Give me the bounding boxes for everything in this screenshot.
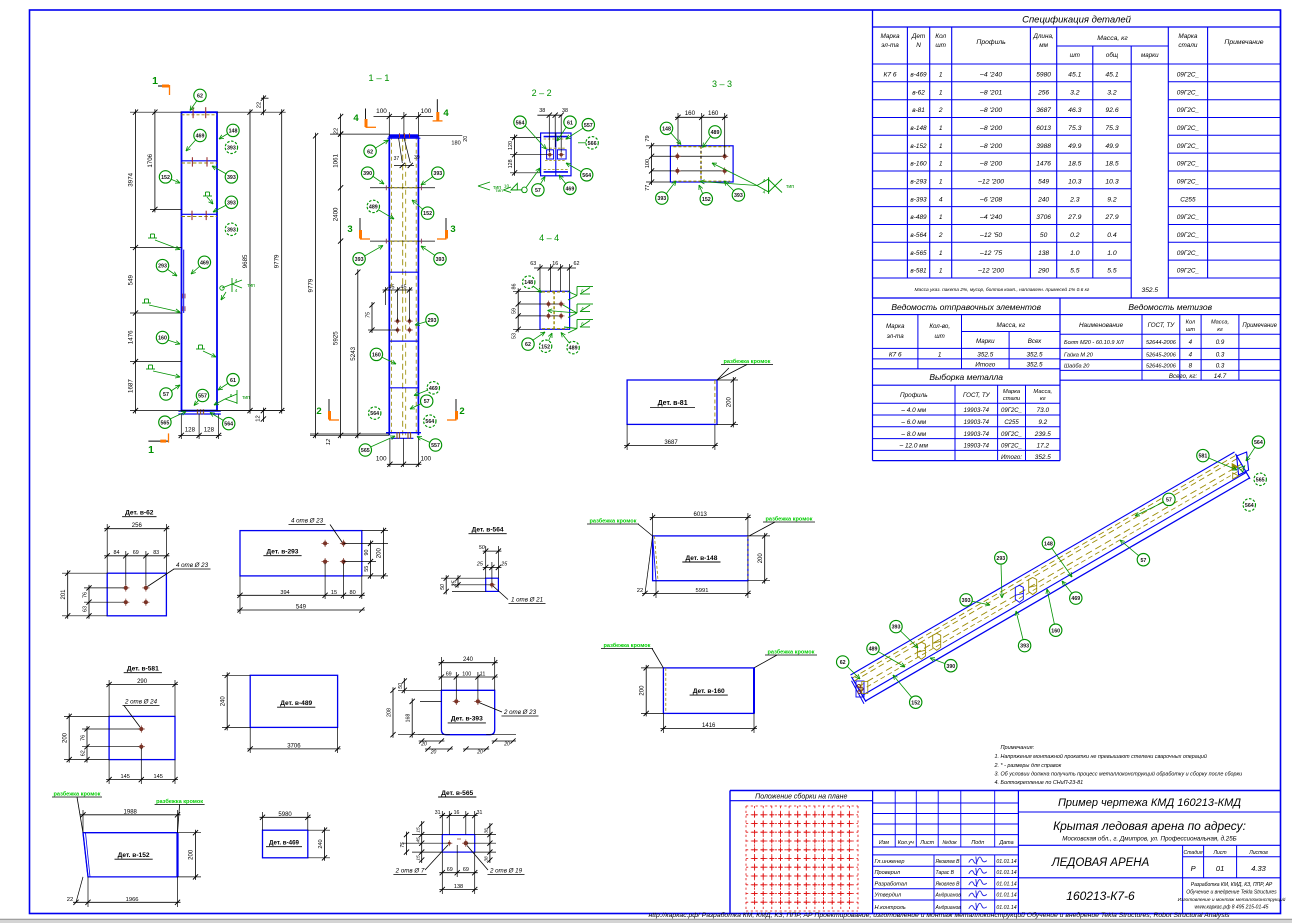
svg-text:Шайба 20: Шайба 20: [1064, 363, 1090, 370]
svg-text:16: 16: [454, 810, 460, 816]
svg-text:1476: 1476: [1036, 161, 1051, 168]
svg-text:22: 22: [334, 128, 340, 134]
svg-text:38: 38: [484, 828, 490, 834]
svg-text:5925: 5925: [333, 331, 340, 345]
svg-text:100: 100: [421, 108, 432, 115]
svg-text:393: 393: [227, 175, 236, 181]
svg-text:57: 57: [424, 399, 430, 405]
svg-text:Марка: Марка: [1178, 33, 1198, 40]
svg-text:52644-2006: 52644-2006: [1146, 340, 1177, 346]
svg-text:49.9: 49.9: [1068, 143, 1081, 150]
svg-text:3988: 3988: [1036, 143, 1051, 150]
svg-text:01.01.14: 01.01.14: [996, 859, 1016, 865]
svg-text:Дет. в-81: Дет. в-81: [658, 400, 688, 407]
svg-text:469: 469: [429, 386, 438, 392]
svg-text:128: 128: [508, 159, 514, 168]
svg-text:352.5: 352.5: [1027, 362, 1043, 369]
svg-text:50: 50: [1040, 232, 1048, 239]
svg-text:–8 '200: –8 '200: [979, 125, 1002, 132]
svg-text:50: 50: [398, 683, 404, 689]
svg-text:25: 25: [452, 580, 458, 588]
svg-text:2: 2: [459, 406, 464, 417]
svg-text:15: 15: [415, 855, 421, 861]
svg-text:Дет: Дет: [911, 33, 926, 40]
svg-text:01.01.14: 01.01.14: [996, 881, 1016, 887]
svg-text:Примечания:: Примечания:: [1001, 745, 1035, 751]
svg-text:160: 160: [708, 110, 719, 117]
svg-text:31: 31: [477, 810, 483, 816]
svg-text:–12 '200: –12 '200: [977, 179, 1004, 186]
svg-text:– 8.0 мм: – 8.0 мм: [900, 431, 926, 438]
svg-text:эл-та: эл-та: [881, 42, 899, 49]
svg-text:1.0: 1.0: [1070, 250, 1080, 257]
svg-text:2 отв Ø 23: 2 отв Ø 23: [503, 709, 537, 716]
svg-text:200: 200: [62, 732, 68, 743]
svg-text:8: 8: [1189, 363, 1193, 370]
svg-text:5.5: 5.5: [1107, 268, 1117, 275]
svg-text:393: 393: [962, 598, 971, 604]
svg-text:– 6.0 мм: – 6.0 мм: [900, 419, 926, 426]
svg-text:Разработка КМ, КМД, КЗ, ППР, А: Разработка КМ, КМД, КЗ, ППР, АР: [1191, 882, 1273, 888]
svg-text:Масса, кг: Масса, кг: [996, 322, 1025, 329]
svg-text:нttр://каркас.рф/ Разработка: нttр://каркас.рф/ Разработка КМ, КМД, КЗ…: [648, 911, 1230, 919]
svg-text:25: 25: [500, 562, 508, 568]
svg-text:Болт М20 - 60.10.9 ХЛ: Болт М20 - 60.10.9 ХЛ: [1064, 340, 1124, 346]
svg-text:564: 564: [370, 411, 379, 417]
svg-text:393: 393: [433, 171, 442, 177]
svg-text:469: 469: [1071, 596, 1080, 602]
svg-text:Дет. в-469: Дет. в-469: [269, 840, 300, 847]
svg-text:27.9: 27.9: [1067, 214, 1081, 221]
svg-text:Дет. в-581: Дет. в-581: [127, 666, 159, 673]
svg-text:160213-К7-6: 160213-К7-6: [1066, 889, 1135, 903]
svg-text:5980: 5980: [1036, 72, 1051, 79]
svg-text:Масса,: Масса,: [1033, 389, 1052, 395]
svg-text:200: 200: [639, 685, 645, 696]
svg-text:489: 489: [869, 647, 878, 653]
svg-text:Гл.инженер: Гл.инженер: [875, 859, 905, 865]
svg-text:69: 69: [463, 867, 469, 873]
svg-text:393: 393: [436, 257, 445, 263]
svg-text:Профиль: Профиль: [976, 39, 1006, 46]
svg-text:1. Напряжения монтажной прокат: 1. Напряжения монтажной прокатки не прев…: [995, 753, 1207, 760]
svg-text:45.1: 45.1: [1068, 72, 1081, 79]
svg-text:15: 15: [331, 590, 337, 596]
svg-text:Всех: Всех: [1028, 338, 1042, 345]
svg-text:489: 489: [569, 346, 578, 352]
svg-text:390: 390: [363, 171, 372, 177]
svg-text:Всего, кг:: Всего, кг:: [1169, 373, 1197, 380]
svg-text:469: 469: [196, 134, 205, 140]
svg-text:в-489: в-489: [910, 214, 927, 221]
svg-text:138: 138: [454, 884, 463, 890]
svg-text:Длина,: Длина,: [1032, 33, 1054, 40]
svg-text:в-581: в-581: [910, 268, 927, 275]
svg-text:393: 393: [1020, 644, 1029, 650]
svg-text:83: 83: [153, 550, 159, 556]
svg-text:394: 394: [280, 590, 289, 596]
svg-text:239.5: 239.5: [1034, 431, 1051, 438]
svg-text:Пример чертежа КМД 160213-КМД: Пример чертежа КМД 160213-КМД: [1058, 797, 1241, 809]
svg-text:Итого:: Итого:: [1001, 454, 1022, 461]
svg-text:4 отв Ø 23: 4 отв Ø 23: [176, 562, 209, 569]
svg-text:разбежка кромок: разбежка кромок: [765, 516, 812, 523]
svg-text:–12 '75: –12 '75: [979, 250, 1002, 257]
svg-text:Кол: Кол: [1186, 320, 1196, 326]
svg-text:20: 20: [476, 750, 483, 756]
svg-text:Крытая ледовая арена по адресу: Крытая ледовая арена по адресу:: [1053, 819, 1246, 833]
svg-text:393: 393: [734, 193, 743, 199]
svg-text:352.5: 352.5: [1035, 454, 1051, 461]
svg-text:76: 76: [81, 735, 87, 741]
svg-text:в-148: в-148: [910, 125, 927, 132]
svg-text:0.3: 0.3: [1216, 352, 1225, 359]
svg-text:4: 4: [353, 113, 359, 124]
svg-text:Дет. в-293: Дет. в-293: [267, 549, 299, 556]
svg-text:Тарас В: Тарас В: [936, 870, 955, 876]
svg-text:шт: шт: [935, 333, 945, 340]
svg-text:17.2: 17.2: [1037, 443, 1050, 450]
svg-text:Положение сборки на плане: Положение сборки на плане: [755, 793, 847, 801]
svg-text:в-81: в-81: [912, 107, 925, 114]
svg-text:Изготовление и монтаж металлок: Изготовление и монтаж металлоконструкций: [1178, 896, 1286, 903]
svg-text:Проверил: Проверил: [875, 870, 901, 876]
svg-text:352.5: 352.5: [1142, 287, 1159, 294]
svg-text:8: 8: [230, 393, 233, 398]
svg-text:200: 200: [758, 553, 764, 564]
svg-text:Дет. в-160: Дет. в-160: [693, 688, 725, 695]
svg-text:200: 200: [189, 849, 195, 860]
svg-text:18.5: 18.5: [1105, 161, 1118, 168]
svg-text:3.2: 3.2: [1107, 89, 1117, 96]
svg-text:3.2: 3.2: [1070, 89, 1080, 96]
svg-text:53: 53: [512, 333, 518, 339]
svg-text:Обучение и внедрение Tekla Str: Обучение и внедрение Tekla Structures: [1186, 890, 1277, 896]
svg-text:1061: 1061: [333, 153, 340, 167]
svg-text:9.2: 9.2: [1038, 419, 1047, 426]
svg-text:45: 45: [401, 285, 407, 291]
svg-text:Примечание: Примечание: [1242, 323, 1277, 329]
svg-text:45: 45: [415, 837, 421, 843]
svg-text:09Г2С_: 09Г2С_: [1177, 89, 1200, 96]
svg-text:240: 240: [463, 657, 474, 663]
svg-text:152: 152: [423, 211, 432, 217]
svg-text:180: 180: [451, 141, 460, 147]
svg-text:09Г2С_: 09Г2С_: [1177, 268, 1200, 275]
svg-text:100: 100: [462, 672, 471, 678]
svg-text:в-565: в-565: [910, 250, 927, 257]
svg-text:1706: 1706: [147, 153, 154, 167]
svg-text:57: 57: [535, 188, 541, 194]
svg-text:2.3: 2.3: [1069, 196, 1080, 203]
svg-text:Марки: Марки: [976, 338, 995, 345]
svg-text:38: 38: [484, 856, 490, 862]
svg-text:Марка: Марка: [880, 33, 900, 40]
svg-text:Стадия: Стадия: [1184, 850, 1203, 856]
svg-text:15: 15: [415, 827, 421, 833]
svg-text:469: 469: [565, 186, 574, 192]
svg-text:120: 120: [508, 141, 514, 150]
svg-text:09Г2С_: 09Г2С_: [1001, 444, 1022, 450]
svg-text:09Г2С_: 09Г2С_: [1177, 107, 1200, 114]
svg-text:4: 4: [235, 288, 238, 293]
svg-text:4: 4: [1189, 352, 1193, 359]
svg-text:208: 208: [386, 708, 392, 717]
svg-text:2: 2: [938, 107, 943, 114]
svg-text:1: 1: [939, 179, 943, 186]
svg-text:27.9: 27.9: [1104, 214, 1118, 221]
svg-text:09Г2С_: 09Г2С_: [1177, 125, 1200, 132]
svg-text:61: 61: [567, 120, 573, 126]
svg-text:Выборка металла: Выборка металла: [929, 372, 1003, 382]
svg-text:кг: кг: [1040, 396, 1046, 402]
svg-text:52645-2006: 52645-2006: [1146, 353, 1177, 359]
svg-text:01.01.14: 01.01.14: [996, 905, 1016, 911]
svg-text:390: 390: [946, 664, 955, 670]
svg-text:549: 549: [296, 605, 307, 611]
svg-text:N: N: [916, 42, 921, 49]
svg-text:160: 160: [372, 353, 381, 359]
svg-text:240: 240: [1037, 196, 1049, 203]
svg-text:6: 6: [581, 322, 584, 328]
svg-text:кг: кг: [1217, 327, 1223, 333]
svg-text:22: 22: [637, 588, 643, 594]
svg-text:1: 1: [152, 75, 158, 87]
svg-text:19903-74: 19903-74: [964, 408, 990, 414]
svg-text:581: 581: [1198, 454, 1207, 460]
svg-text:128: 128: [185, 426, 196, 433]
svg-text:5243: 5243: [350, 346, 357, 360]
svg-text:–8 '200: –8 '200: [979, 161, 1002, 168]
svg-text:22: 22: [256, 102, 262, 108]
svg-text:10: 10: [504, 184, 510, 190]
svg-text:– 4.0 мм: – 4.0 мм: [900, 407, 926, 414]
svg-text:86: 86: [512, 284, 518, 290]
svg-text:4.33: 4.33: [1251, 864, 1266, 873]
svg-text:16: 16: [552, 261, 558, 267]
svg-text:С255: С255: [1180, 196, 1196, 203]
svg-text:557: 557: [584, 123, 593, 129]
svg-text:Марка: Марка: [1003, 389, 1021, 395]
svg-text:1: 1: [148, 444, 154, 456]
svg-text:37: 37: [394, 156, 400, 162]
svg-text:148: 148: [1044, 541, 1053, 547]
svg-text:Профиль: Профиль: [900, 392, 928, 399]
svg-text:148: 148: [229, 129, 238, 135]
svg-text:14.7: 14.7: [1214, 373, 1227, 380]
svg-text:152: 152: [161, 175, 170, 181]
svg-text:разбежка кромок: разбежка кромок: [589, 518, 636, 525]
svg-text:9.2: 9.2: [1107, 196, 1117, 203]
svg-text:2. * - размеры для справок: 2. * - размеры для справок: [994, 763, 1062, 769]
svg-text:09Г2С_: 09Г2С_: [1177, 179, 1200, 186]
svg-text:10.3: 10.3: [1068, 179, 1081, 186]
svg-text:9779: 9779: [274, 254, 281, 268]
svg-text:565: 565: [1256, 477, 1265, 483]
svg-text:46.3: 46.3: [1068, 107, 1081, 114]
svg-text:09Г2С_: 09Г2С_: [1177, 143, 1200, 150]
svg-text:393: 393: [657, 196, 666, 202]
svg-text:4: 4: [443, 108, 449, 119]
svg-text:Дет. в-62: Дет. в-62: [125, 510, 154, 517]
svg-text:62: 62: [81, 750, 87, 756]
svg-text:0.4: 0.4: [1107, 232, 1117, 239]
svg-text:290: 290: [1037, 268, 1049, 275]
svg-text:61: 61: [230, 378, 236, 384]
svg-text:200: 200: [377, 548, 383, 559]
svg-text:62: 62: [574, 261, 580, 267]
svg-text:57: 57: [1166, 498, 1172, 504]
svg-text:564: 564: [425, 419, 434, 425]
svg-text:4. Болтокрепление по СНиП-23-8: 4. Болтокрепление по СНиП-23-81: [995, 780, 1084, 786]
svg-text:Изм: Изм: [879, 840, 889, 846]
svg-text:стали: стали: [1003, 396, 1021, 402]
svg-text:1988: 1988: [124, 809, 138, 815]
svg-text:489: 489: [369, 205, 378, 211]
svg-text:168: 168: [406, 714, 412, 723]
svg-text:Московская обл., г. Дмитров, у: Московская обл., г. Дмитров, ул. Професс…: [1062, 836, 1236, 843]
svg-text:марки: марки: [1141, 52, 1159, 59]
svg-text:4: 4: [763, 190, 766, 196]
svg-text:ГОСТ, ТУ: ГОСТ, ТУ: [1148, 322, 1176, 329]
svg-text:100: 100: [376, 456, 387, 463]
svg-text:5991: 5991: [696, 588, 709, 594]
svg-text:1 – 1: 1 – 1: [368, 73, 389, 84]
svg-text:09Г2С_: 09Г2С_: [1001, 408, 1022, 414]
svg-text:Дет. в-565: Дет. в-565: [441, 790, 473, 797]
svg-text:557: 557: [198, 394, 207, 400]
svg-text:0.3: 0.3: [1216, 363, 1225, 370]
svg-text:1: 1: [939, 161, 943, 168]
svg-text:80: 80: [349, 590, 355, 596]
svg-text:1: 1: [939, 125, 943, 132]
svg-text:09Г2С_: 09Г2С_: [1001, 432, 1022, 438]
svg-text:240: 240: [220, 696, 226, 707]
svg-text:Масса указ. пакета 2%, мусор,: Масса указ. пакета 2%, мусор, болтов ком…: [914, 286, 1089, 293]
svg-text:К7 6: К7 6: [889, 352, 902, 359]
svg-text:09Г2С_: 09Г2С_: [1177, 72, 1200, 79]
svg-text:50: 50: [440, 584, 446, 590]
svg-text:1687: 1687: [128, 379, 135, 393]
svg-text:565: 565: [160, 420, 169, 426]
svg-text:Кол.уч: Кол.уч: [898, 840, 914, 846]
svg-text:09Г2С_: 09Г2С_: [1177, 232, 1200, 239]
svg-text:52646-2006: 52646-2006: [1146, 364, 1177, 370]
svg-text:5980: 5980: [278, 812, 292, 818]
svg-text:3687: 3687: [664, 440, 678, 446]
svg-text:–12 '50: –12 '50: [979, 232, 1002, 239]
svg-text:Спецификация деталей: Спецификация деталей: [1022, 15, 1132, 26]
svg-text:75.3: 75.3: [1105, 125, 1118, 132]
svg-text:4: 4: [939, 196, 943, 203]
svg-text:240: 240: [318, 839, 324, 848]
svg-text:9685: 9685: [242, 254, 249, 268]
svg-text:19903-74: 19903-74: [964, 420, 990, 426]
svg-text:Н.контроль: Н.контроль: [875, 905, 906, 911]
svg-text:564: 564: [516, 120, 525, 126]
svg-text:352.5: 352.5: [1027, 352, 1043, 359]
svg-text:–8 '200: –8 '200: [979, 107, 1002, 114]
svg-text:Лист: Лист: [1213, 850, 1227, 856]
svg-text:1416: 1416: [702, 723, 716, 729]
svg-text:шт: шт: [935, 42, 946, 49]
svg-text:4 – 4: 4 – 4: [539, 233, 559, 243]
svg-text:тип: тип: [247, 283, 255, 289]
svg-text:Андрианов: Андрианов: [935, 905, 962, 911]
svg-text:564: 564: [582, 173, 591, 179]
svg-text:в-393: в-393: [910, 196, 927, 203]
svg-text:шт: шт: [1186, 327, 1196, 333]
svg-text:565: 565: [361, 448, 370, 454]
svg-text:73.0: 73.0: [1037, 407, 1050, 414]
svg-text:62: 62: [525, 342, 531, 348]
svg-text:разбежка кромок: разбежка кромок: [53, 791, 100, 798]
svg-text:1: 1: [939, 214, 943, 221]
svg-text:Дет. в-489: Дет. в-489: [280, 700, 312, 707]
svg-text:Гайка М 20: Гайка М 20: [1064, 352, 1094, 359]
svg-text:09Г2С_: 09Г2С_: [1177, 214, 1200, 221]
svg-text:77: 77: [645, 185, 651, 191]
svg-text:6013: 6013: [694, 512, 708, 518]
svg-text:3: 3: [347, 224, 352, 235]
svg-text:1: 1: [939, 250, 943, 257]
svg-text:К7 6: К7 6: [883, 72, 896, 79]
svg-text:4: 4: [235, 278, 238, 283]
svg-text:2400: 2400: [333, 207, 340, 221]
svg-text:Ведомость отправочных элементо: Ведомость отправочных элементов: [891, 302, 1041, 312]
svg-text:3: 3: [450, 224, 455, 235]
svg-text:1966: 1966: [126, 897, 139, 903]
svg-text:75: 75: [400, 842, 406, 848]
svg-text:557: 557: [431, 443, 440, 449]
svg-text:393: 393: [892, 625, 901, 631]
svg-text:–4 '240: –4 '240: [979, 72, 1002, 79]
svg-text:Ведомость метизов: Ведомость метизов: [1128, 302, 1212, 312]
svg-text:– 12.0 мм: – 12.0 мм: [899, 443, 929, 450]
svg-text:в-62: в-62: [912, 89, 925, 96]
svg-text:Листов: Листов: [1248, 850, 1268, 856]
svg-text:100: 100: [376, 108, 387, 115]
svg-text:20: 20: [463, 136, 469, 142]
svg-text:256: 256: [1037, 89, 1049, 96]
svg-text:9779: 9779: [308, 278, 315, 292]
svg-text:3706: 3706: [1036, 214, 1051, 221]
svg-text:1: 1: [939, 268, 943, 275]
svg-text:разбежка кромок: разбежка кромок: [603, 642, 650, 649]
svg-text:10.3: 10.3: [1105, 179, 1118, 186]
svg-text:Примечание: Примечание: [1224, 39, 1263, 46]
svg-text:3 – 3: 3 – 3: [712, 79, 732, 89]
svg-text:62: 62: [840, 660, 846, 666]
svg-text:393: 393: [227, 227, 236, 233]
svg-text:4: 4: [763, 178, 766, 184]
svg-text:75.3: 75.3: [1068, 125, 1081, 132]
svg-text:С255: С255: [1004, 420, 1019, 426]
svg-text:–8 '200: –8 '200: [979, 143, 1002, 150]
svg-text:Р: Р: [1191, 864, 1196, 873]
svg-text:549: 549: [1038, 179, 1049, 186]
svg-text:12: 12: [326, 438, 332, 445]
svg-text:564: 564: [1245, 503, 1254, 509]
svg-text:69: 69: [133, 550, 139, 556]
svg-text:Разработал: Разработал: [875, 881, 908, 887]
svg-text:Лист: Лист: [919, 840, 934, 846]
svg-text:145: 145: [121, 774, 130, 780]
svg-text:200: 200: [727, 397, 733, 408]
svg-text:84: 84: [114, 550, 120, 556]
svg-text:Кол: Кол: [935, 33, 946, 40]
svg-text:566: 566: [588, 141, 597, 147]
